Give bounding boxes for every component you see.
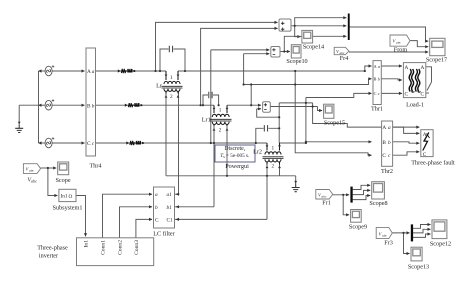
svg-text:Conn1: Conn1 [100, 240, 106, 255]
svg-text:Three-phase fault: Three-phase fault [411, 160, 455, 167]
svg-text:A: A [382, 125, 386, 131]
svg-text:Scope17: Scope17 [426, 57, 447, 64]
svg-text:abc: abc [322, 195, 327, 199]
svg-text:a: a [92, 69, 95, 75]
svg-text:Discrete,: Discrete, [224, 146, 245, 152]
svg-text:A: A [405, 65, 409, 71]
svg-text:1: 1 [170, 75, 173, 81]
svg-text:B: B [87, 103, 91, 109]
svg-text:b: b [388, 140, 391, 146]
svg-text:1: 1 [272, 145, 275, 151]
svg-text:Fr3: Fr3 [384, 240, 393, 247]
svg-text:LC filter: LC filter [153, 231, 174, 238]
svg-text:b: b [92, 103, 95, 109]
svg-text:Ts = 5e-005 s.: Ts = 5e-005 s. [220, 153, 249, 159]
svg-text:B: B [382, 140, 386, 146]
svg-text:A: A [423, 132, 427, 138]
svg-text:Lr1: Lr1 [202, 117, 211, 124]
svg-text:O: O [69, 194, 73, 200]
svg-text:Fr4: Fr4 [340, 55, 349, 62]
svg-text:A: A [421, 65, 425, 71]
svg-text:abc: abc [29, 169, 34, 173]
svg-text:abc: abc [382, 234, 387, 238]
svg-text:Scope: Scope [55, 177, 70, 184]
svg-text:C: C [155, 217, 159, 223]
svg-text:Scope10: Scope10 [286, 58, 307, 65]
svg-text:Thr2: Thr2 [381, 168, 393, 175]
svg-text:Lr2: Lr2 [253, 149, 262, 156]
svg-text:abc: abc [396, 41, 401, 45]
svg-text:Three-phase: Three-phase [37, 245, 68, 252]
svg-text:C1: C1 [167, 217, 174, 223]
svg-text:C: C [382, 153, 386, 159]
svg-text:Scope12: Scope12 [430, 241, 451, 248]
svg-text:c: c [378, 91, 380, 96]
svg-text:In1: In1 [61, 194, 68, 200]
svg-text:2: 2 [219, 127, 222, 133]
svg-text:2: 2 [272, 164, 275, 170]
svg-text:C: C [87, 141, 91, 147]
svg-text:1: 1 [219, 108, 222, 114]
svg-text:a: a [388, 125, 391, 131]
svg-text:Load-1: Load-1 [406, 102, 424, 109]
svg-text:b1: b1 [167, 205, 173, 211]
svg-text:Scope14: Scope14 [303, 44, 324, 51]
svg-text:C: C [405, 92, 409, 98]
svg-text:From: From [394, 47, 408, 54]
svg-text:C: C [421, 92, 425, 98]
svg-text:In1: In1 [83, 240, 89, 248]
svg-text:Subsystem1: Subsystem1 [53, 205, 83, 212]
svg-text:Scope13: Scope13 [408, 264, 429, 271]
svg-text:Thr4: Thr4 [89, 163, 101, 170]
svg-text:Conn2: Conn2 [117, 240, 123, 255]
svg-text:Scope9: Scope9 [349, 224, 367, 231]
svg-text:a1: a1 [167, 192, 173, 198]
svg-text:A: A [374, 64, 377, 69]
svg-text:inverter: inverter [39, 253, 58, 260]
svg-text:C: C [374, 91, 377, 96]
svg-text:A: A [87, 69, 91, 75]
svg-text:Thr1: Thr1 [371, 106, 383, 113]
svg-text:Conn3: Conn3 [134, 240, 140, 255]
svg-text:a: a [378, 64, 380, 69]
svg-text:2: 2 [170, 94, 173, 100]
svg-text:a: a [155, 192, 158, 198]
svg-text:Scope15: Scope15 [324, 120, 345, 127]
svg-text:Vabc: Vabc [28, 178, 38, 184]
svg-text:Lr: Lr [156, 83, 162, 90]
svg-text:Fr1: Fr1 [322, 200, 331, 207]
svg-text:Powergui: Powergui [225, 163, 249, 170]
svg-text:C: C [423, 152, 427, 158]
svg-text:B: B [374, 77, 377, 82]
svg-text:b: b [378, 77, 380, 82]
svg-text:Scope8: Scope8 [369, 200, 387, 207]
svg-text:b: b [155, 205, 158, 211]
